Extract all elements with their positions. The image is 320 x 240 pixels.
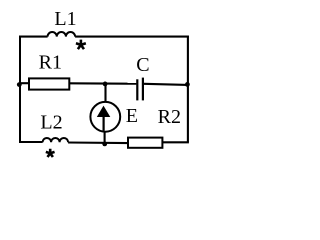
svg-text:C: C	[136, 54, 149, 76]
wire bottom-right segment	[162, 141, 189, 143]
wire from current source down to bottom node	[104, 132, 106, 143]
wire top-right segment	[75, 36, 189, 38]
resistor R1	[29, 78, 69, 89]
current source E circle	[90, 102, 120, 132]
svg-text:L2: L2	[40, 112, 62, 134]
wire top-left segment	[19, 36, 48, 38]
polarity mark asterisk for L1	[76, 40, 86, 50]
node right junction dot	[185, 82, 190, 87]
inductor L2	[43, 138, 69, 142]
wire middle-right segment	[144, 84, 188, 85]
svg-text:L1: L1	[54, 8, 76, 30]
wire right branch	[187, 36, 189, 143]
wire from top node down to current source	[104, 83, 106, 101]
wire bottom-middle segment	[68, 141, 128, 144]
node left junction dot	[17, 82, 22, 87]
svg-text:R2: R2	[158, 106, 181, 128]
resistor R2	[128, 138, 162, 148]
node junction dot at current source top	[103, 82, 108, 87]
polarity mark asterisk for L2	[46, 149, 55, 157]
current source arrowhead	[97, 106, 111, 117]
wire middle-left segment	[20, 82, 30, 84]
wire left branch	[19, 36, 21, 143]
capacitor C left plate	[136, 79, 138, 100]
wire middle-center segment	[70, 82, 137, 84]
wire bottom-left segment	[19, 141, 43, 143]
svg-text:E: E	[126, 105, 138, 127]
capacitor C right plate	[142, 78, 144, 101]
current source arrow	[102, 113, 104, 131]
node bottom junction dot	[102, 142, 107, 147]
inductor L1	[48, 32, 75, 37]
svg-text:R1: R1	[39, 52, 62, 74]
